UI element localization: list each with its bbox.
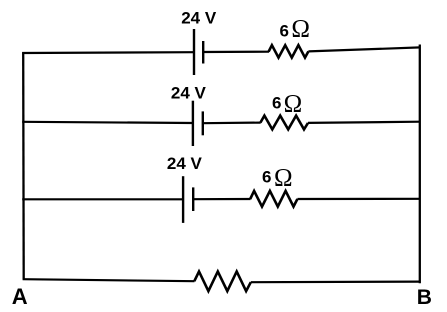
- wire: branch 2 left segment: [22, 122, 193, 123]
- svg-text:24 V: 24 V: [167, 154, 203, 173]
- wire: branch 3 right segment: [297, 198, 420, 200]
- svg-text:24 V: 24 V: [181, 8, 217, 27]
- battery V1 long plate (positive): [193, 29, 195, 75]
- svg-text:A: A: [12, 284, 28, 309]
- wire: branch 3 left segment: [22, 198, 183, 200]
- wire: branch 1 middle segment: [203, 51, 269, 53]
- wire: branch 2 right segment: [308, 122, 421, 123]
- svg-text:24 V: 24 V: [171, 83, 207, 102]
- battery V2 short plate (negative): [202, 111, 204, 135]
- svg-text:6: 6: [280, 21, 289, 40]
- resistor R3 zigzag: [250, 191, 297, 207]
- wire: branch 1 left segment: [22, 51, 194, 54]
- svg-text:B: B: [417, 286, 432, 309]
- svg-text:Ω: Ω: [284, 90, 303, 117]
- svg-text:Ω: Ω: [291, 16, 310, 43]
- resistor R1 zigzag: [269, 45, 309, 57]
- wire: right vertical rail to node B: [419, 45, 421, 284]
- battery V3 short plate (negative): [192, 187, 194, 211]
- battery V1 short plate (negative): [202, 41, 204, 64]
- battery V2 long plate (positive): [192, 101, 194, 146]
- wire: branch 1 right segment: [308, 47, 420, 51]
- resistor R2 zigzag: [260, 116, 308, 130]
- svg-text:6: 6: [272, 94, 281, 113]
- wire: left vertical rail from node A: [22, 52, 25, 279]
- svg-text:Ω: Ω: [274, 164, 293, 191]
- svg-text:6: 6: [262, 168, 271, 187]
- wire: branch 3 middle segment: [193, 198, 250, 200]
- battery V3 long plate (positive): [182, 176, 184, 223]
- wire: bottom right segment to node B: [251, 281, 421, 284]
- wire: branch 2 middle segment: [203, 121, 261, 124]
- resistor R4 zigzag (bottom): [194, 272, 251, 292]
- wire: bottom left segment from node A: [23, 279, 195, 281]
